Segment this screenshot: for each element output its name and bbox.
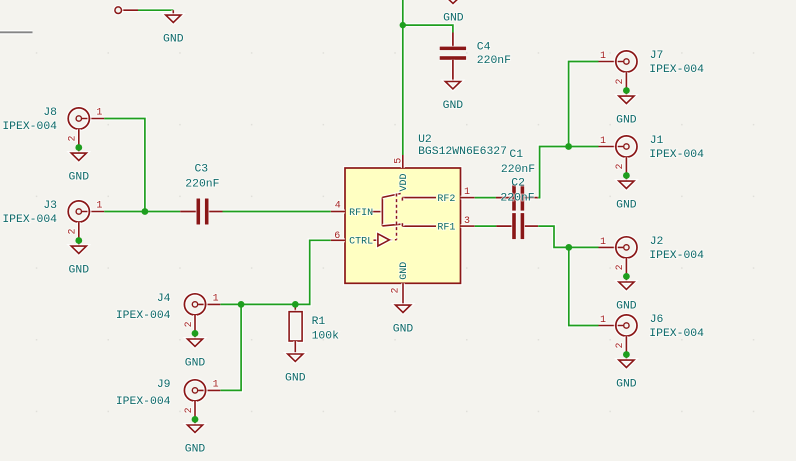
junction at J4 pin 2: [192, 330, 199, 337]
svg-text:1: 1: [213, 293, 219, 304]
U2 pin 4 (RFIN): [331, 200, 345, 211]
svg-text:1: 1: [96, 201, 102, 212]
svg-text:IPEX-004: IPEX-004: [2, 121, 57, 133]
svg-text:GND: GND: [185, 357, 206, 369]
svg-text:C3: C3: [194, 163, 208, 175]
wire C2 up to J1/J7 net: [538, 147, 598, 198]
svg-text:GND: GND: [399, 262, 410, 280]
junction at J8 pin 2: [75, 144, 82, 151]
junction VDD/C4: [400, 22, 406, 28]
pin 2 of J9: [193, 401, 197, 425]
ground under J3: [71, 246, 86, 253]
U2 pin names: [349, 173, 455, 279]
ground under J9: [187, 425, 202, 432]
U2 reference and value labels: [418, 134, 507, 158]
ground under J8: [71, 153, 86, 160]
pin 2 of J3: [77, 222, 81, 246]
svg-text:GND: GND: [443, 100, 464, 112]
svg-text:2: 2: [68, 228, 79, 234]
svg-text:IPEX-004: IPEX-004: [649, 64, 704, 76]
wire J9 riser: [220, 304, 241, 390]
svg-text:J7: J7: [650, 50, 664, 62]
svg-text:C2: C2: [511, 178, 525, 190]
svg-text:220nF: 220nF: [500, 193, 534, 205]
svg-text:BGS12WN6E6327: BGS12WN6E6327: [418, 146, 507, 158]
svg-text:2: 2: [615, 264, 626, 270]
svg-text:C1: C1: [509, 149, 523, 161]
svg-text:1: 1: [600, 315, 606, 326]
pin 2 of J4: [193, 315, 197, 339]
svg-text:100k: 100k: [312, 331, 340, 343]
wire J3 to C3: [104, 209, 180, 213]
svg-text:220nF: 220nF: [185, 179, 219, 191]
U2 pin 3 (RF1): [461, 216, 475, 227]
svg-text:C4: C4: [477, 42, 491, 54]
svg-text:IPEX-004: IPEX-004: [2, 214, 57, 226]
wire to C4: [403, 25, 453, 33]
svg-text:1: 1: [213, 379, 219, 390]
ground under J4: [187, 339, 202, 346]
capacitor C1: [496, 213, 538, 239]
svg-text:J9: J9: [157, 379, 171, 391]
svg-text:GND: GND: [393, 323, 414, 335]
connector J1 IPEX-004: [599, 135, 705, 211]
junction at J3 pin 2: [75, 237, 82, 244]
wire branch up to J7: [569, 62, 599, 147]
svg-text:IPEX-004: IPEX-004: [116, 310, 171, 322]
pin 2 of J8: [77, 129, 81, 153]
svg-text:J8: J8: [43, 107, 57, 119]
wire top-left to ground: [138, 8, 173, 12]
connector J8 IPEX-004: [2, 107, 104, 183]
svg-text:J3: J3: [43, 200, 57, 212]
svg-text:220nF: 220nF: [501, 164, 535, 176]
U2 internal switch graphic: [371, 194, 436, 247]
svg-text:RF2: RF2: [437, 194, 455, 205]
ground under R1: [285, 354, 306, 384]
svg-text:J4: J4: [157, 293, 171, 305]
svg-text:R1: R1: [312, 316, 326, 328]
svg-text:GND: GND: [616, 114, 637, 126]
svg-text:2: 2: [68, 135, 79, 141]
junction J1/J7 net: [565, 143, 572, 150]
svg-text:J2: J2: [650, 236, 664, 248]
svg-text:VDD: VDD: [399, 173, 410, 191]
svg-text:J1: J1: [650, 135, 664, 147]
pin 2 of J7: [624, 72, 628, 96]
svg-text:IPEX-004: IPEX-004: [649, 250, 704, 262]
junction at J9 pin 2: [192, 416, 199, 423]
svg-text:2: 2: [615, 163, 626, 169]
svg-text:CTRL: CTRL: [349, 236, 373, 247]
connector J3 IPEX-004: [2, 200, 104, 276]
svg-text:IPEX-004: IPEX-004: [649, 149, 704, 161]
ground GND (top, clipped): [443, 0, 464, 25]
svg-text:2: 2: [184, 407, 195, 413]
op-amp U2 BGS12WN6E6327 body: [345, 168, 461, 283]
pin 2 of J1: [624, 157, 628, 181]
svg-text:GND: GND: [285, 372, 306, 384]
junction at J6 pin 2: [623, 351, 630, 358]
svg-text:1: 1: [600, 237, 606, 248]
connector J7 IPEX-004: [599, 50, 705, 126]
svg-text:U2: U2: [418, 134, 432, 146]
svg-text:5: 5: [393, 158, 404, 164]
grey graphic line: [0, 30, 33, 34]
svg-text:3: 3: [464, 216, 470, 227]
svg-text:IPEX-004: IPEX-004: [649, 328, 704, 340]
U2 pin 2 (GND): [391, 283, 404, 305]
grid dots (decorative): [36, 52, 755, 412]
svg-text:GND: GND: [616, 378, 637, 390]
wire J4 to CTRL: [220, 240, 330, 304]
wire RF2 pin to C2: [475, 196, 497, 200]
wire C1 to J2/J6 net: [538, 226, 598, 247]
svg-text:J6: J6: [650, 314, 664, 326]
svg-text:GND: GND: [69, 264, 90, 276]
svg-text:2: 2: [184, 321, 195, 327]
unconnected pin (top left): [115, 7, 138, 14]
connector J2 IPEX-004: [599, 236, 705, 312]
ground under J2: [619, 282, 634, 289]
wire branch down to J6: [569, 247, 599, 325]
connector J4 IPEX-004: [116, 293, 220, 369]
svg-text:GND: GND: [616, 300, 637, 312]
svg-text:4: 4: [335, 200, 341, 211]
U2 pin 1 (RF2): [461, 187, 475, 198]
junction at J7 pin 2: [623, 87, 630, 94]
connector J9 IPEX-004: [116, 379, 220, 455]
wire J8 pin1 down to J3 net: [104, 119, 145, 212]
C1 C2 labels: [500, 149, 535, 205]
svg-text:GND: GND: [443, 13, 464, 25]
junction at J1 pin 2: [623, 172, 630, 179]
ground under U2: [393, 305, 414, 335]
ground under J6: [619, 360, 634, 367]
wire C3 to RFIN pin 4: [223, 209, 331, 213]
U2 pin 5 (VDD): [393, 155, 404, 168]
svg-text:IPEX-004: IPEX-004: [116, 396, 171, 408]
U2 pin 6 (CTRL): [331, 231, 345, 242]
junction J8/J3 net: [142, 208, 149, 215]
wire RF1 pin to C1: [475, 224, 497, 228]
junction at J2 pin 2: [623, 273, 630, 280]
capacitor C4: [440, 33, 511, 82]
svg-text:2: 2: [391, 287, 402, 293]
svg-text:1: 1: [464, 187, 470, 198]
svg-text:1: 1: [96, 108, 102, 119]
junction J2/J6 net: [565, 244, 572, 251]
svg-text:RFIN: RFIN: [349, 208, 373, 219]
svg-text:RF1: RF1: [437, 223, 455, 234]
svg-text:220nF: 220nF: [477, 55, 511, 67]
svg-text:6: 6: [334, 231, 340, 242]
ground under C4: [443, 82, 464, 112]
ground under J7: [619, 96, 634, 103]
pin 2 of J6: [624, 336, 628, 360]
capacitor C3: [180, 163, 222, 224]
junction J9/J4: [238, 301, 245, 308]
svg-text:GND: GND: [185, 443, 206, 455]
svg-text:1: 1: [600, 51, 606, 62]
wire VDD net vertical: [401, 0, 405, 155]
resistor R1 100k: [289, 304, 339, 354]
svg-text:1: 1: [600, 136, 606, 147]
ground GND (top left): [163, 10, 184, 45]
svg-text:2: 2: [615, 78, 626, 84]
svg-text:GND: GND: [69, 171, 90, 183]
svg-text:2: 2: [615, 342, 626, 348]
svg-text:GND: GND: [616, 199, 637, 211]
capacitor C2: [496, 185, 538, 211]
junction R1 top: [292, 301, 299, 308]
svg-text:GND: GND: [163, 33, 184, 45]
ground under J1: [619, 181, 634, 188]
pin 2 of J2: [624, 258, 628, 282]
connector J6 IPEX-004: [599, 314, 705, 390]
